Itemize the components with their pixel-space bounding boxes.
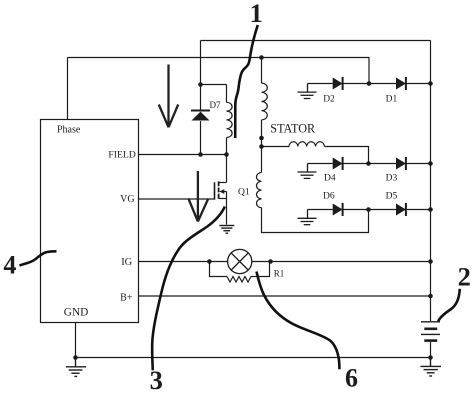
svg-text:IG: IG: [121, 257, 132, 268]
svg-text:1: 1: [250, 0, 263, 28]
diode D3: [396, 157, 406, 170]
svg-text:D5: D5: [386, 191, 398, 201]
node D2-D1 midpoint: [367, 81, 372, 86]
wire stator phase C tail: [262, 208, 369, 233]
node GND bottom: [73, 355, 78, 360]
wire VG line: [139, 198, 215, 200]
wire rectifier row 3: [308, 209, 333, 211]
svg-text:D7: D7: [210, 100, 221, 110]
label 2 leader: [438, 289, 460, 322]
svg-text:D3: D3: [386, 174, 398, 184]
inductor stator phase A: [262, 58, 268, 147]
wire IG line left: [139, 261, 228, 263]
node star point upper: [259, 136, 264, 141]
svg-text:VG: VG: [120, 194, 134, 205]
ground row3: [298, 210, 317, 225]
svg-text:D6: D6: [323, 191, 335, 201]
wire GND lead: [75, 323, 77, 358]
current arrow 1: [159, 65, 178, 128]
node rail IG: [428, 259, 433, 264]
svg-text:D2: D2: [323, 94, 335, 104]
node rail B+: [428, 294, 433, 299]
ground battery: [420, 358, 441, 377]
svg-text:2: 2: [458, 261, 471, 291]
ground under Q1: [219, 226, 234, 234]
label 1 leader: [235, 25, 258, 138]
transistor Q1 (n-MOSFET): [215, 181, 227, 199]
wire Q1 drain: [226, 155, 228, 183]
wire rectifier row 1: [308, 83, 333, 85]
diode D6: [333, 203, 343, 216]
wire right rail: [430, 41, 432, 322]
wire top rail: [201, 40, 431, 42]
node rail row3: [428, 207, 433, 212]
battery BT (label 2): [421, 322, 440, 358]
svg-text:GND: GND: [64, 306, 88, 318]
ground row1: [298, 84, 317, 99]
svg-text:FIELD: FIELD: [108, 150, 135, 161]
svg-text:4: 4: [3, 251, 16, 280]
svg-text:Q1: Q1: [238, 188, 250, 198]
diode D7: [191, 111, 210, 121]
current arrow 2: [188, 171, 208, 222]
svg-text:Phase: Phase: [57, 125, 81, 136]
svg-text:R1: R1: [274, 269, 285, 279]
node phase A top: [259, 55, 264, 60]
regulator box U "Phase": [41, 120, 139, 323]
node D4-D3 midpoint: [366, 161, 371, 166]
node FIELD / coil bottom: [224, 152, 229, 157]
diode D1: [396, 77, 406, 90]
svg-text:3: 3: [150, 365, 163, 395]
label 4 leader: [20, 251, 57, 265]
node FIELD / D7: [198, 152, 203, 157]
diode D4: [333, 157, 343, 170]
node lamp left: [207, 259, 212, 264]
wire IG line right: [252, 261, 431, 263]
wire regulator top pin: [67, 58, 69, 120]
wire field coil top link: [201, 84, 227, 86]
svg-text:B+: B+: [120, 292, 133, 303]
label 3 leader: [152, 207, 225, 371]
wire Q1 source to ground: [226, 192, 228, 225]
ground regulator GND: [66, 358, 86, 377]
svg-text:STATOR: STATOR: [270, 122, 316, 136]
node D7 top / coil link: [198, 82, 203, 87]
wire D7 branch vertical: [200, 41, 202, 111]
svg-text:6: 6: [345, 364, 358, 393]
node rail bottom: [428, 355, 433, 360]
inductor stator phase B: [262, 142, 325, 147]
svg-text:D4: D4: [324, 174, 336, 184]
resistor R1: [210, 262, 270, 283]
inductor field coil (rotor): [227, 85, 233, 155]
wire bottom ground bus: [76, 357, 431, 359]
node rail row1: [428, 81, 433, 86]
wire phase sense line: [68, 58, 370, 84]
wire B+ line: [139, 295, 431, 297]
node lamp right: [268, 259, 273, 264]
node rail row2: [428, 161, 433, 166]
diode D5: [396, 203, 406, 216]
wire FIELD line: [139, 154, 227, 156]
node star point lower: [259, 144, 264, 149]
wire stator phase B tail: [325, 147, 369, 164]
inductor stator phase C: [257, 147, 262, 208]
diode D2: [333, 77, 343, 90]
svg-text:D1: D1: [386, 94, 398, 104]
lamp (indicator): [228, 249, 252, 273]
ground row2: [298, 164, 317, 179]
wire rectifier row 2: [308, 163, 333, 165]
node D6-D5 midpoint: [366, 207, 371, 212]
label 6 leader: [257, 272, 340, 370]
